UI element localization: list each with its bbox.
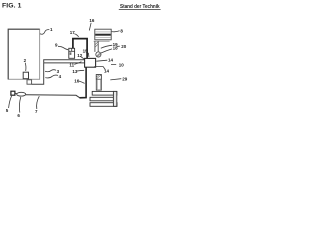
svg-text:29: 29	[122, 77, 128, 82]
rail line 7	[26, 95, 80, 98]
nozzle right wall	[113, 91, 116, 106]
high pressure pipe 17 (inverted U)	[73, 39, 87, 59]
injector holder 29 (small vertical box)	[96, 75, 101, 91]
label 4	[45, 75, 58, 78]
injector feed line (thick, down from valve block)	[80, 67, 87, 98]
valve neck 19	[95, 41, 98, 52]
actuator 8 (hatched box)	[95, 29, 111, 40]
label 8	[112, 31, 120, 32]
svg-text:FIG. 1: FIG. 1	[2, 3, 22, 10]
pump 2 (square inside tank)	[23, 72, 28, 79]
valve block 15	[85, 58, 96, 67]
svg-text:14: 14	[108, 58, 114, 63]
link square to fitting	[15, 92, 17, 94]
svg-text:Stand der Technik: Stand der Technik	[120, 4, 160, 10]
valve ball 18	[96, 52, 101, 57]
svg-text:11: 11	[69, 62, 74, 67]
label 3	[45, 70, 56, 72]
nozzle bar 1	[92, 91, 117, 95]
svg-text:10: 10	[119, 63, 125, 68]
feed pipe (double line to valve block)	[44, 60, 85, 63]
label 1	[40, 30, 49, 35]
svg-text:15: 15	[83, 48, 89, 53]
suction pipe (down-right-up)	[32, 63, 44, 84]
nozzle bar 2	[90, 97, 113, 101]
tank outlet box	[27, 80, 32, 84]
nozzle bar 3	[90, 103, 117, 107]
actuator base line	[94, 40, 110, 42]
tank 1	[8, 29, 39, 79]
heading underline	[119, 9, 161, 11]
svg-text:13: 13	[72, 69, 78, 74]
fitting 6 (lens)	[17, 92, 26, 96]
svg-text:16: 16	[89, 18, 95, 23]
pre-feed pump 9	[69, 48, 75, 58]
fitting 5 (small square)	[11, 91, 15, 95]
svg-text:20: 20	[121, 44, 127, 49]
